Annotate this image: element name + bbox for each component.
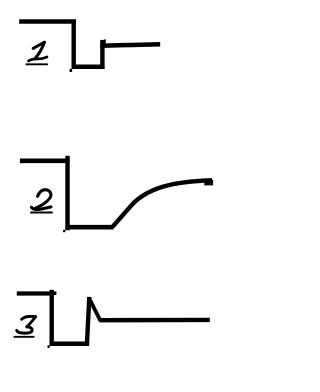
waveform 1 falling edge <box>71 19 75 69</box>
label 1 underline <box>26 63 48 65</box>
waveform 3 falling-edge top nub <box>54 291 57 295</box>
waveform 3 spike rising edge <box>87 300 89 345</box>
label 1 flag stroke <box>33 42 44 48</box>
waveform 1 low-level segment <box>72 64 105 69</box>
waveform 3 low-level left nub <box>48 345 50 348</box>
waveform 3 spike falling edge <box>89 299 100 321</box>
waveform 2 high-level segment <box>20 158 70 163</box>
waveform 3 falling edge <box>50 290 54 346</box>
waveform 2 exponential recovery curve <box>113 180 213 227</box>
label 3 underline <box>14 336 35 338</box>
waveform 3 high-level segment <box>17 291 54 295</box>
label 1 base swash stroke <box>29 57 47 61</box>
waveform 1 rising edge <box>100 40 104 69</box>
label 1 stem stroke <box>35 42 45 59</box>
waveform 1 falling-edge bottom nub <box>70 69 73 72</box>
label 2 base right end blob <box>49 206 52 209</box>
waveform 1 recovered-level segment <box>100 44 160 45</box>
label 2 base stroke <box>32 207 51 210</box>
waveform 3 spike apex <box>87 297 92 301</box>
label 2 top-arc and diagonal stroke <box>35 190 51 209</box>
label 3 middle diagonal stroke <box>27 317 36 327</box>
waveform 1 high-level segment <box>19 19 76 23</box>
label 2 underline <box>30 212 53 214</box>
waveform 2 falling edge <box>65 156 69 231</box>
waveform 3 settled-level segment <box>99 318 210 323</box>
waveform 2 curve end cap <box>204 180 213 186</box>
label 3 top stroke <box>22 316 36 319</box>
label 3 bottom bowl stroke <box>17 327 32 333</box>
waveform 1 rising-edge top nub <box>104 39 106 43</box>
waveform 3 low-level segment <box>50 341 90 346</box>
waveform 2 low-level segment <box>65 225 113 230</box>
waveform 2 low-level left nub <box>63 230 65 232</box>
